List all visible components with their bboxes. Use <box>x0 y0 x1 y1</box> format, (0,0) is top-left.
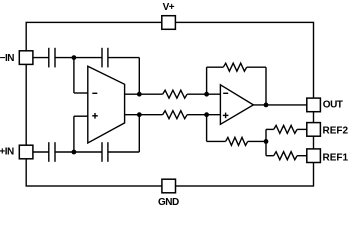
wire amp1 top output <box>125 93 163 95</box>
wire feedback vertical to amp1 top output <box>138 58 140 95</box>
svg-text:+IN: +IN <box>0 146 14 157</box>
wire C2 to feedback corner <box>108 57 139 59</box>
wire R4 to reference node <box>248 140 266 142</box>
junction U2 non-inverting input <box>204 112 209 117</box>
wire reference bracket vertical <box>265 129 267 155</box>
wire node A down <box>73 58 75 93</box>
junction reference node <box>264 139 269 144</box>
wire R5 to REF2 pin <box>297 128 307 130</box>
wire -IN pin to C1 <box>33 57 49 59</box>
wire U2 non-inverting node down <box>206 115 208 142</box>
wire C1 to node A <box>55 57 74 59</box>
wire C3 to node B <box>55 151 74 153</box>
pin +IN <box>19 145 33 159</box>
wire feedback top right <box>247 66 266 68</box>
wire +IN pin to C3 <box>33 151 49 153</box>
wire C4 to feedback corner <box>108 151 139 153</box>
wire bracket to R5 <box>266 128 274 130</box>
junction U2 inverting input <box>204 92 209 97</box>
pin -IN <box>19 51 33 65</box>
resistor R2 <box>163 111 188 119</box>
resistor R1 <box>163 90 188 98</box>
node A junction <box>72 55 77 60</box>
junction output node <box>264 103 269 108</box>
op-amp U2 <box>220 85 253 125</box>
junction amp1 bottom output <box>137 112 142 117</box>
capacitor C3 <box>49 142 55 162</box>
resistor R3 feedback <box>223 63 246 71</box>
wire to amp1 inverting input <box>74 92 88 94</box>
wire R1 to U2 inverting input <box>187 93 220 95</box>
capacitor C1 <box>49 48 55 68</box>
pin GND <box>162 179 176 193</box>
wire feedback down to output node <box>265 67 267 105</box>
wire R2 to U2 non-inverting input <box>187 114 220 116</box>
capacitor C4 <box>102 142 108 162</box>
pin V+ <box>162 16 176 30</box>
resistor R4 <box>226 137 248 145</box>
resistor R5 <box>274 125 297 133</box>
wire to R4 <box>207 140 226 142</box>
pin REF1 <box>307 149 321 163</box>
wire feedback vertical to amp1 bottom output <box>138 115 140 152</box>
wire feedback top left <box>207 66 224 68</box>
svg-text:GND: GND <box>158 197 179 208</box>
wire bracket to R6 <box>266 155 274 157</box>
junction amp1 top output <box>137 92 142 97</box>
svg-text:REF2: REF2 <box>323 126 349 137</box>
svg-text:OUT: OUT <box>323 100 343 111</box>
capacitor C2 <box>102 48 108 68</box>
svg-text:−IN: −IN <box>0 53 14 64</box>
wire node B to C4 <box>74 151 102 153</box>
wire node B up <box>73 116 75 152</box>
svg-text:V+: V+ <box>163 2 175 13</box>
pin OUT <box>307 98 321 112</box>
wire R6 to REF1 pin <box>297 155 307 157</box>
node B junction <box>72 150 77 155</box>
wire node A to C2 <box>74 57 102 59</box>
IC package outline <box>26 22 313 186</box>
wire to amp1 non-inverting input <box>74 115 88 117</box>
op-amp U1 fully differential <box>88 66 125 143</box>
resistor R6 <box>274 152 297 160</box>
wire U2 output to OUT pin <box>253 104 306 106</box>
wire U2 feedback up <box>206 67 208 94</box>
wire amp1 bottom output <box>125 114 163 116</box>
pin REF2 <box>307 123 321 137</box>
svg-text:REF1: REF1 <box>323 153 349 164</box>
